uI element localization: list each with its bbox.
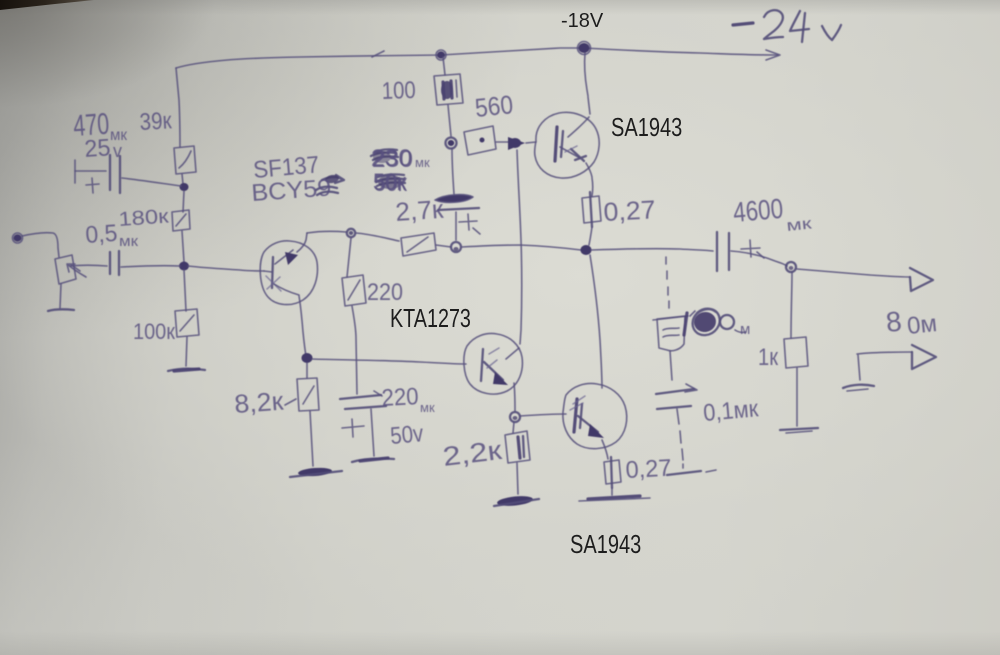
svg-text:0,27: 0,27 <box>603 194 656 227</box>
svg-text:0,1мк: 0,1мк <box>702 395 760 427</box>
svg-text:мк: мк <box>786 215 814 235</box>
svg-text:39к: 39к <box>139 107 173 136</box>
svg-text:мк: мк <box>415 155 430 170</box>
svg-text:1к: 1к <box>758 344 778 371</box>
svg-text:8,2к: 8,2к <box>233 386 285 419</box>
svg-text:25: 25 <box>84 134 112 163</box>
svg-text:0м: 0м <box>906 310 939 340</box>
svg-text:220: 220 <box>367 279 403 306</box>
svg-text:560: 560 <box>473 89 514 123</box>
svg-text:100к: 100к <box>133 319 175 344</box>
svg-text:50v: 50v <box>389 420 424 450</box>
svg-text:0,5: 0,5 <box>85 220 119 249</box>
svg-text:100: 100 <box>381 77 416 105</box>
svg-text:8: 8 <box>884 306 903 338</box>
svg-text:220: 220 <box>381 383 419 412</box>
svg-text:180к: 180к <box>118 206 170 231</box>
svg-text:2,2к: 2,2к <box>441 435 503 472</box>
svg-text:v: v <box>113 141 122 161</box>
svg-text:2,7к: 2,7к <box>394 194 445 227</box>
svg-text:м: м <box>740 321 750 338</box>
svg-text:BCY59: BCY59 <box>251 174 333 207</box>
svg-text:мк: мк <box>420 400 435 415</box>
svg-text:50к: 50к <box>374 170 407 197</box>
svg-text:0,27: 0,27 <box>625 455 672 484</box>
svg-text:мк: мк <box>119 233 138 250</box>
svg-text:4600: 4600 <box>732 193 785 228</box>
